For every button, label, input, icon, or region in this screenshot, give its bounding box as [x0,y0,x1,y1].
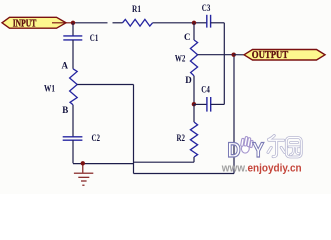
svg-text:R1: R1 [132,4,141,14]
junction dot at output [232,53,236,57]
svg-text:W2: W2 [175,53,186,63]
OUTPUT port flag [244,50,325,62]
wire ground rail bottom left [73,163,134,165]
wire wiper bottom horizontal to output riser [134,173,235,175]
svg-text:C4: C4 [201,84,210,94]
potentiometer W1 [70,69,78,105]
svg-text:R2: R2 [177,133,186,143]
wire C4 right to riser [211,103,225,105]
potentiometer W2 [190,40,197,76]
wire vertical C3 right down to C4 right [223,23,225,105]
watermark character LE (bubble outline) [268,136,285,157]
INPUT port flag [2,17,72,28]
wire C1 to node A / W1 top [72,40,74,69]
svg-text:C2: C2 [92,133,101,143]
capacitor C2 [63,137,83,140]
wire W1 bottom to C2 [72,105,74,137]
wire node C to C3 [194,22,207,24]
wire node D down to R2 [193,104,195,122]
junction dot node D [192,102,196,106]
wire R2 bottom to ground rail [193,157,195,162]
capacitor C4 [207,97,211,112]
wire node C down to W2 [193,23,195,40]
junction dot at input node [71,21,75,25]
capacitor C3 [207,15,211,28]
wire top rail right (R1 to node C junction) [153,22,194,24]
svg-text:B: B [62,105,68,115]
wire W1 wiper tap [77,84,133,86]
watermark hand glyph [239,136,253,154]
wire C2 down to ground rail [72,140,74,163]
watermark character YUAN (bubble outline) [286,138,301,158]
svg-text:W1: W1 [44,83,55,93]
svg-text:C3: C3 [202,3,211,13]
svg-text:C1: C1 [90,33,99,43]
wire R2 bottom rail [134,161,195,163]
wire W2 wiper tap to output junction [198,54,234,56]
svg-text:D: D [227,139,241,162]
wire output riser vertical [233,55,235,174]
svg-text:Y: Y [252,139,264,162]
svg-text:INPUT: INPUT [13,17,37,28]
ground [74,163,93,185]
wire W2 bottom to node D junction [193,76,195,105]
svg-text:OUTPUT: OUTPUT [252,51,289,62]
wire wiper vertical down [133,85,135,174]
junction dot at ground [81,161,85,165]
svg-text:C: C [184,32,191,42]
wire C3 right to corner [211,22,225,24]
wire output junction to OUTPUT flag [234,54,245,56]
svg-text:www.enjoydiy.cn: www.enjoydiy.cn [221,163,302,175]
wire node D to C4 [194,103,207,105]
wire top rail left (input junction to R1) [73,22,108,24]
capacitor C1 [63,36,82,40]
svg-text:A: A [62,60,69,70]
svg-text:D: D [185,75,192,85]
wire input node down to C1 [72,23,74,36]
resistor R1 [123,19,153,26]
junction dot at node C top [192,21,196,25]
resistor R2 [190,122,197,157]
